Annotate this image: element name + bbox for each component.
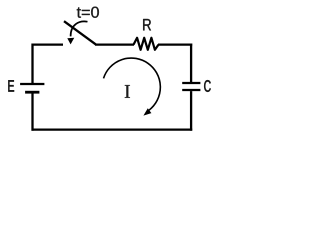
switch closing arc bbox=[71, 21, 88, 36]
battery E long plate bbox=[20, 83, 44, 85]
wire left vertical lower (battery short plate to corner) bbox=[31, 93, 33, 130]
switch S1 blade (open, hinged at right) bbox=[64, 21, 96, 44]
wire left vertical upper (corner to battery top plate) bbox=[31, 44, 33, 84]
switch arrowhead bbox=[67, 38, 74, 45]
wire right vertical upper (corner to capacitor top plate) bbox=[190, 44, 192, 83]
capacitor C top plate bbox=[182, 82, 200, 84]
current loop arrowhead bbox=[143, 108, 151, 115]
capacitor C bottom plate bbox=[182, 89, 200, 91]
wire top-left horizontal (corner to switch left contact) bbox=[32, 43, 64, 45]
label t=0 bbox=[77, 7, 99, 18]
wire right vertical lower (capacitor bottom plate to corner) bbox=[190, 91, 192, 131]
label R bbox=[143, 19, 151, 30]
label E bbox=[8, 80, 14, 91]
current loop arc I bbox=[104, 58, 161, 110]
wire top-right horizontal (resistor to corner) bbox=[158, 43, 192, 45]
battery E short plate bbox=[25, 91, 39, 94]
wire bottom horizontal bbox=[32, 128, 193, 130]
label I bbox=[125, 85, 130, 98]
resistor R zigzag bbox=[134, 38, 159, 50]
wire top middle (switch hinge to resistor) bbox=[95, 43, 134, 45]
label C bbox=[204, 80, 211, 92]
